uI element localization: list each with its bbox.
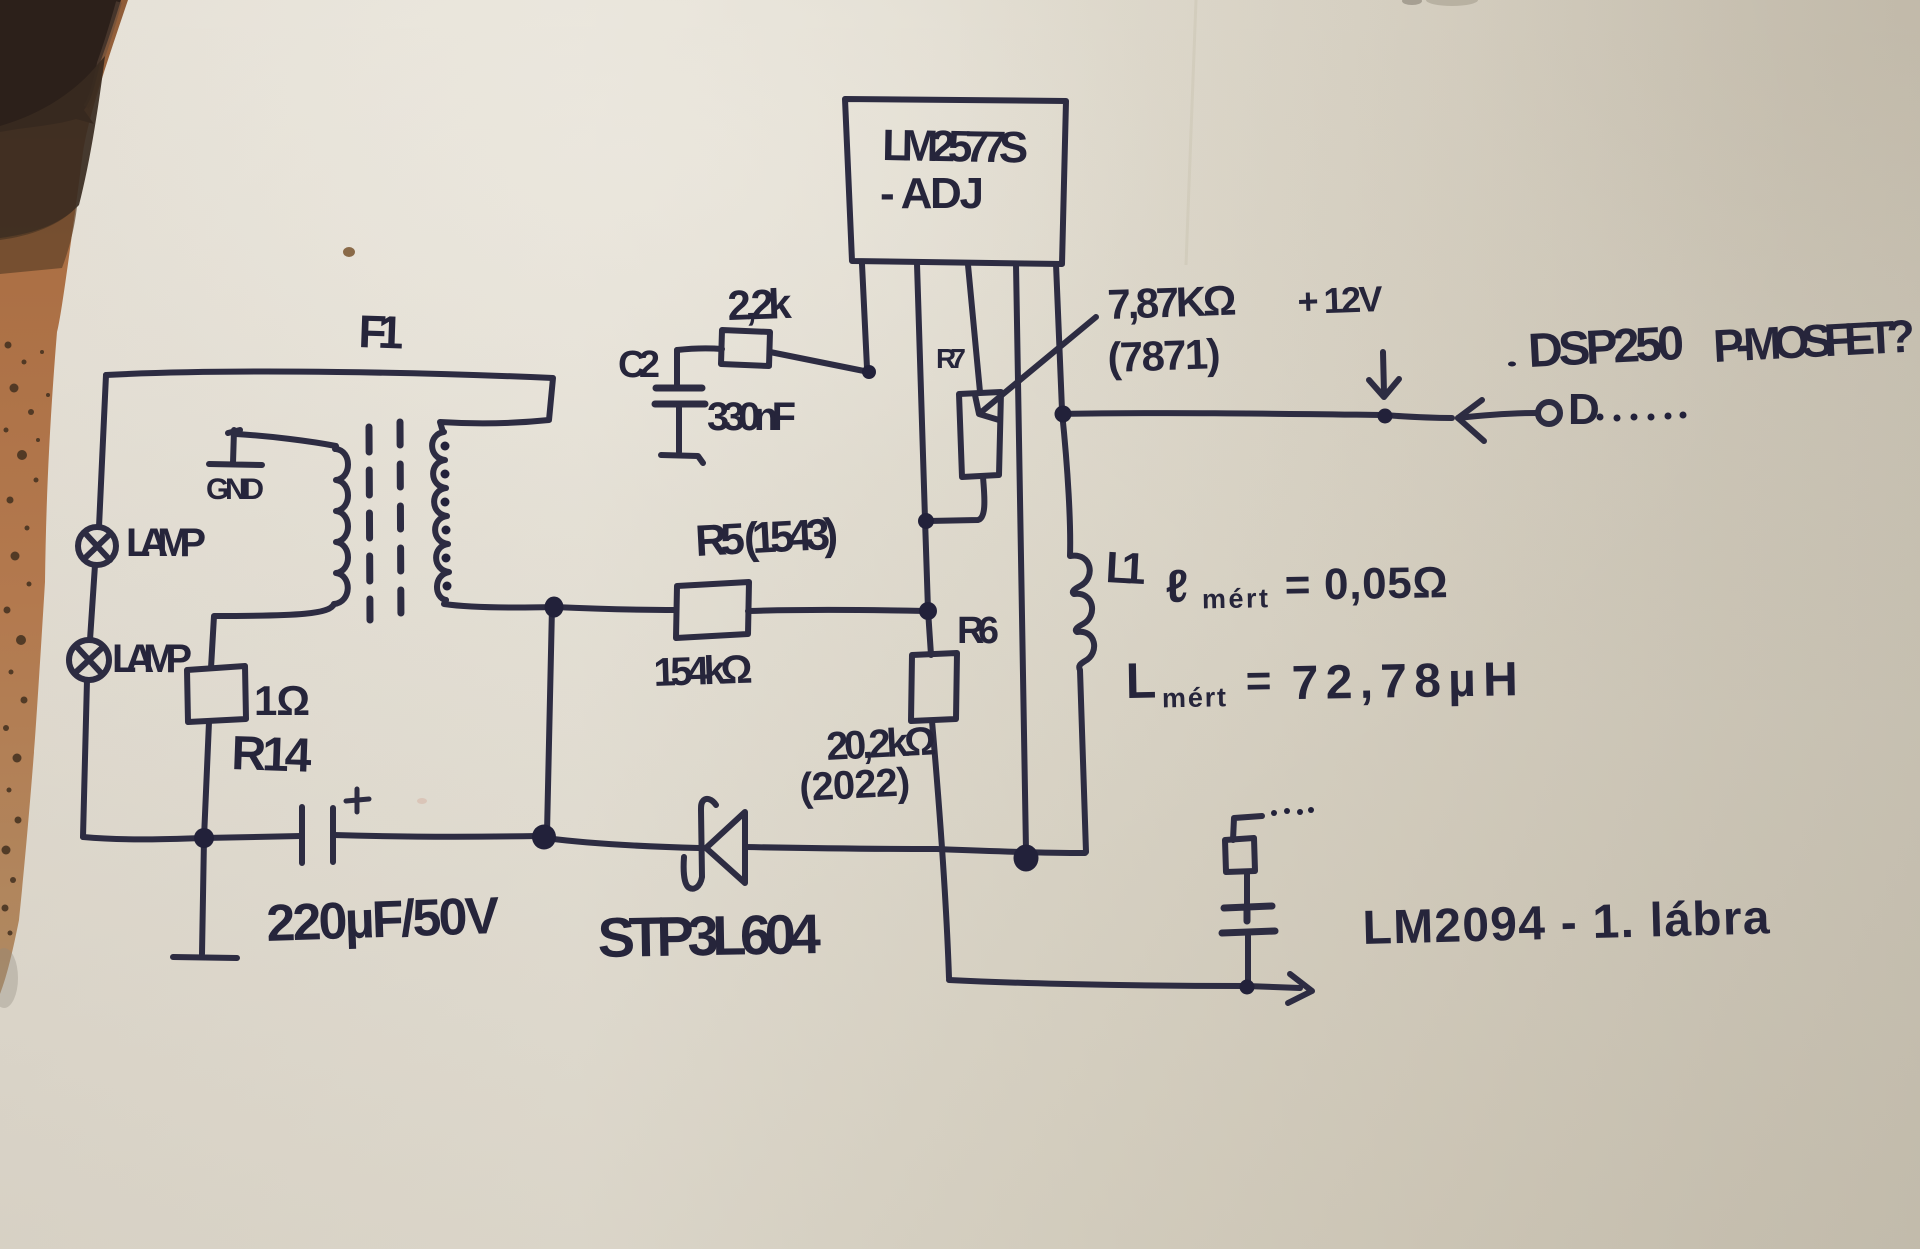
node: output-line junction [1240,980,1255,995]
LM2094 branch: stub with flag [1233,816,1262,840]
node: pin5/+12V junction [1055,406,1072,423]
ground symbol left (GND) [209,430,262,465]
wire R7 bottom to pin2 node [928,477,984,521]
wire R6 down to output line [932,721,949,978]
svg-text:R14: R14 [231,727,313,783]
svg-text:7,87KΩ: 7,87KΩ [1107,277,1238,328]
LM2094 branch: wire to capacitor [1244,872,1250,906]
dots after terminal D [1597,414,1604,421]
wire pin2 of U1 [917,264,931,655]
wire C2 to resistor 2,2k [677,348,722,350]
LM2094 branch: capacitor plates [1222,906,1275,933]
svg-text:2,2k: 2,2k [727,280,793,329]
ground below C2 [661,455,703,463]
wire R14 to bottom junction [204,722,209,838]
paper crease [1186,0,1196,265]
LM2094 branch: resistor box [1225,838,1255,872]
wire pin4 of U1 [1016,264,1026,851]
svg-text:154kΩ: 154kΩ [653,648,753,695]
wire pin1 of U1 [862,264,867,368]
paper-edge shadow bottom-left [0,948,18,1008]
wire primary bottom to R14 [211,604,334,668]
wire bottom-left line [83,836,301,839]
capacitor C2 plates [655,388,705,404]
svg-text:L: L [1125,652,1157,709]
diode STP3L604 triangle [706,812,745,883]
svg-text:LAMP: LAMP [112,637,192,681]
resistor R7 [959,392,1001,477]
dark object top-left corner [0,0,121,274]
node: pin4/diode-wire blob [1014,845,1039,872]
node: R7/pin2 junction [918,513,934,529]
svg-text:(2022): (2022) [798,760,911,810]
svg-text:ℓ: ℓ [1165,560,1188,612]
wire top-left long run to transformer [106,372,553,432]
svg-text:+ 12V: + 12V [1297,278,1383,322]
resistor R5 [676,582,749,638]
node: +12V mid junction [1378,409,1393,424]
resistor 2,2k [721,330,770,366]
wire R5 to pin2 line [748,610,926,611]
svg-text:72,78µH: 72,78µH [1291,653,1518,710]
wire secondary bottom to node A [444,600,554,608]
wire between top wire and LAMP1 [99,375,106,527]
wire 220uF to diode junction [334,835,538,837]
wire +12V rail [1063,413,1452,418]
svg-text:330nF: 330nF [707,395,796,439]
svg-text:220µF/50V: 220µF/50V [265,887,500,953]
lamp LAMP1 [78,527,116,565]
dots above LM2094 stub [1271,810,1277,816]
transformer F1 primary winding [334,449,348,604]
capacitor C 220uF plates [302,807,333,863]
ground below junction [173,838,237,958]
diode STP3L604 cathode bar [684,799,716,889]
node: R14/bottom-line junction [194,828,214,848]
wire arrowhead to terminal [1458,413,1537,418]
svg-text:GND: GND [206,473,264,506]
+12V down arrow [1369,352,1399,397]
node: R5/R6/pin2 junction [919,602,937,620]
svg-text:mért: mért [1202,583,1269,614]
svg-text:(7871): (7871) [1107,330,1222,381]
paper speck [343,247,355,257]
svg-text:STP3L604: STP3L604 [597,902,821,969]
svg-text:D: D [1568,385,1600,434]
resistor R6 [911,653,957,721]
svg-text:1Ω: 1Ω [254,677,310,724]
svg-text:LM2577S: LM2577S [882,121,1029,173]
transformer F1 secondary winding [432,432,449,600]
svg-text:R7: R7 [936,343,966,374]
capacitor C2 stub [674,350,680,386]
wire node A down to diode junction [547,607,552,833]
arrowhead output [1288,974,1312,1003]
inductor L1 [1062,412,1094,852]
svg-text:- ADJ: - ADJ [880,169,984,218]
svg-text:mért: mért [1162,682,1227,713]
pointer arrow to R7 [975,317,1096,420]
winding knots on secondary [441,442,450,451]
wire LAMP2 down to bottom line [83,680,87,837]
node: diode junction blob [532,825,556,850]
svg-text:L1: L1 [1104,543,1147,594]
cork speckles on table [2,342,51,936]
grey smudge top edge [1426,0,1478,6]
wire 2,2k to pin1 node [770,352,869,372]
wire diode junction to cathode [545,838,699,848]
arrowhead on +12V rail [1458,400,1484,441]
wire pin5 of U1 [1056,264,1062,410]
node: pin1/2,2k junction [862,365,876,379]
svg-text:P-MOSFET?: P-MOSFET? [1712,309,1916,372]
svg-text:= 0,05Ω: = 0,05Ω [1284,558,1448,610]
svg-text:=: = [1245,656,1272,705]
comma before DSP250 [1508,362,1516,367]
lamp LAMP2 [69,640,109,680]
resistor R14 [187,666,246,722]
plus sign of 220uF [346,789,369,812]
wire GND to primary winding top [236,434,336,449]
svg-text:R6: R6 [957,610,999,652]
wire diode anode to L1 bottom [745,847,1085,853]
terminal circle D [1538,402,1560,424]
node A: transformer/R5/diode junction [545,597,564,618]
svg-text:LAMP: LAMP [126,521,206,565]
svg-text:LM2094 - 1. lábra: LM2094 - 1. lábra [1362,891,1771,955]
label Lmért = 72,78µH [1125,646,1518,714]
svg-text:C2: C2 [618,344,660,386]
wire pin3 of U1 [968,265,980,392]
label Rmért = 0,05Ω [1165,555,1448,615]
svg-text:DSP250: DSP250 [1527,317,1686,378]
table strip along left edge [0,0,128,994]
LM2094 branch: wire to output line [1245,933,1251,986]
transformer F1 core dashes [369,427,370,620]
wire C2 to ground [676,404,682,452]
IC U1 box LM2577S [845,99,1066,264]
svg-text:F1: F1 [358,305,405,359]
wire node A to R5 [554,607,676,610]
svg-text:R5 (1543): R5 (1543) [694,510,839,566]
wire LAMP1 to LAMP2 [90,565,95,640]
wire bottom output line [949,980,1300,988]
